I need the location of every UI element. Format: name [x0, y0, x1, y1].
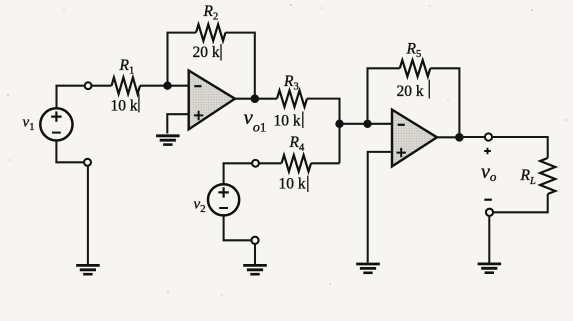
svg-text:10 k: 10 k	[111, 98, 138, 115]
wire: R4 to summing riser	[311, 162, 340, 164]
ground (U2 + input)	[356, 263, 380, 266]
ground (output)	[478, 262, 502, 265]
wire: v1 top lead	[57, 86, 85, 109]
source v1	[40, 108, 72, 140]
resistor R5 20k (feedback of U2)	[400, 60, 431, 76]
svg-text:20 k: 20 k	[397, 83, 424, 100]
wire: U2 + input to ground	[368, 152, 392, 263]
v1 plus mark	[51, 111, 61, 121]
wire: output node to terminal	[459, 136, 485, 138]
U2 non-inverting pin (+)	[397, 148, 406, 157]
U2 inverting pin (-)	[398, 124, 405, 126]
wire: v2 bottom lead	[224, 215, 252, 240]
svg-text:10 k: 10 k	[279, 176, 306, 193]
node: open terminal between v2 and R4	[252, 160, 259, 167]
wire: v2 top lead	[224, 163, 252, 184]
node: open terminal vo+	[485, 133, 492, 140]
resistor R1 10k	[112, 78, 141, 94]
label - (output polarity)	[484, 199, 492, 201]
wire: U2 output	[437, 136, 459, 138]
wire: vo1 node to R3	[255, 98, 277, 100]
wire: R2 to output riser	[226, 33, 255, 99]
svg-text:20 k: 20 k	[193, 44, 220, 61]
svg-text:10 k: 10 k	[274, 113, 301, 130]
wire: U1 output	[235, 98, 255, 100]
resistor RL (load)	[540, 158, 555, 194]
wire: U1 + input to ground	[167, 114, 188, 133]
op-amp U2	[392, 110, 437, 167]
node vo1 (U1 output)	[251, 94, 260, 103]
wire: R3 to summing riser	[307, 99, 340, 164]
ground (U1 + input)	[156, 134, 180, 137]
junction: R5 feedback node	[363, 120, 371, 128]
wire: terminal to RL top	[492, 137, 548, 158]
tick after 20k label (R5)	[428, 80, 430, 99]
node: open terminal below v1	[84, 159, 91, 166]
source v2	[208, 184, 239, 215]
wire: v1 terminal to ground	[87, 166, 89, 264]
wire: R1 to op-amp U1 inverting input	[140, 85, 189, 87]
wire: feedback left riser to R5	[368, 68, 400, 124]
v2 plus mark	[218, 187, 228, 197]
tick after 10k label (R4)	[307, 176, 309, 193]
v2 minus mark	[219, 207, 228, 209]
U1 non-inverting pin (+)	[194, 111, 203, 120]
resistor R3 10k	[277, 90, 307, 106]
wire: summing node to U2 inverting input	[340, 123, 393, 125]
tick after 20k label (R2)	[220, 44, 222, 61]
junction: R3/R4 summing node	[335, 120, 343, 128]
wire: v1 bottom lead	[56, 141, 84, 163]
op-amp U1	[189, 71, 235, 130]
wire: RL bottom to vo- terminal	[493, 194, 548, 212]
wire: v2 terminal to ground	[254, 244, 256, 264]
tick after 10k label (R1)	[138, 94, 140, 113]
node: open terminal vo-	[486, 209, 493, 216]
wire: terminal to R1	[92, 85, 112, 87]
wire: terminal to R4	[259, 162, 282, 164]
ground (v1)	[76, 264, 100, 267]
node: open terminal below v2	[251, 237, 258, 244]
node: U2 output junction	[455, 133, 464, 142]
junction: R1 / R2 feedback node	[163, 82, 171, 90]
v1 minus mark	[52, 132, 61, 134]
wire: feedback left riser to R2	[168, 33, 197, 86]
tick after 10k label (R3)	[302, 112, 304, 129]
label + (output polarity)	[484, 148, 491, 155]
node: open terminal between v1 and R1	[85, 82, 92, 89]
resistor R4 10k	[282, 155, 312, 171]
ground (v2)	[243, 264, 267, 267]
wire: R5 to output riser	[430, 68, 459, 137]
U1 inverting pin (-)	[194, 85, 201, 87]
wire: vo- terminal to ground	[488, 216, 490, 263]
resistor R2 20k (feedback of U1)	[196, 24, 226, 40]
